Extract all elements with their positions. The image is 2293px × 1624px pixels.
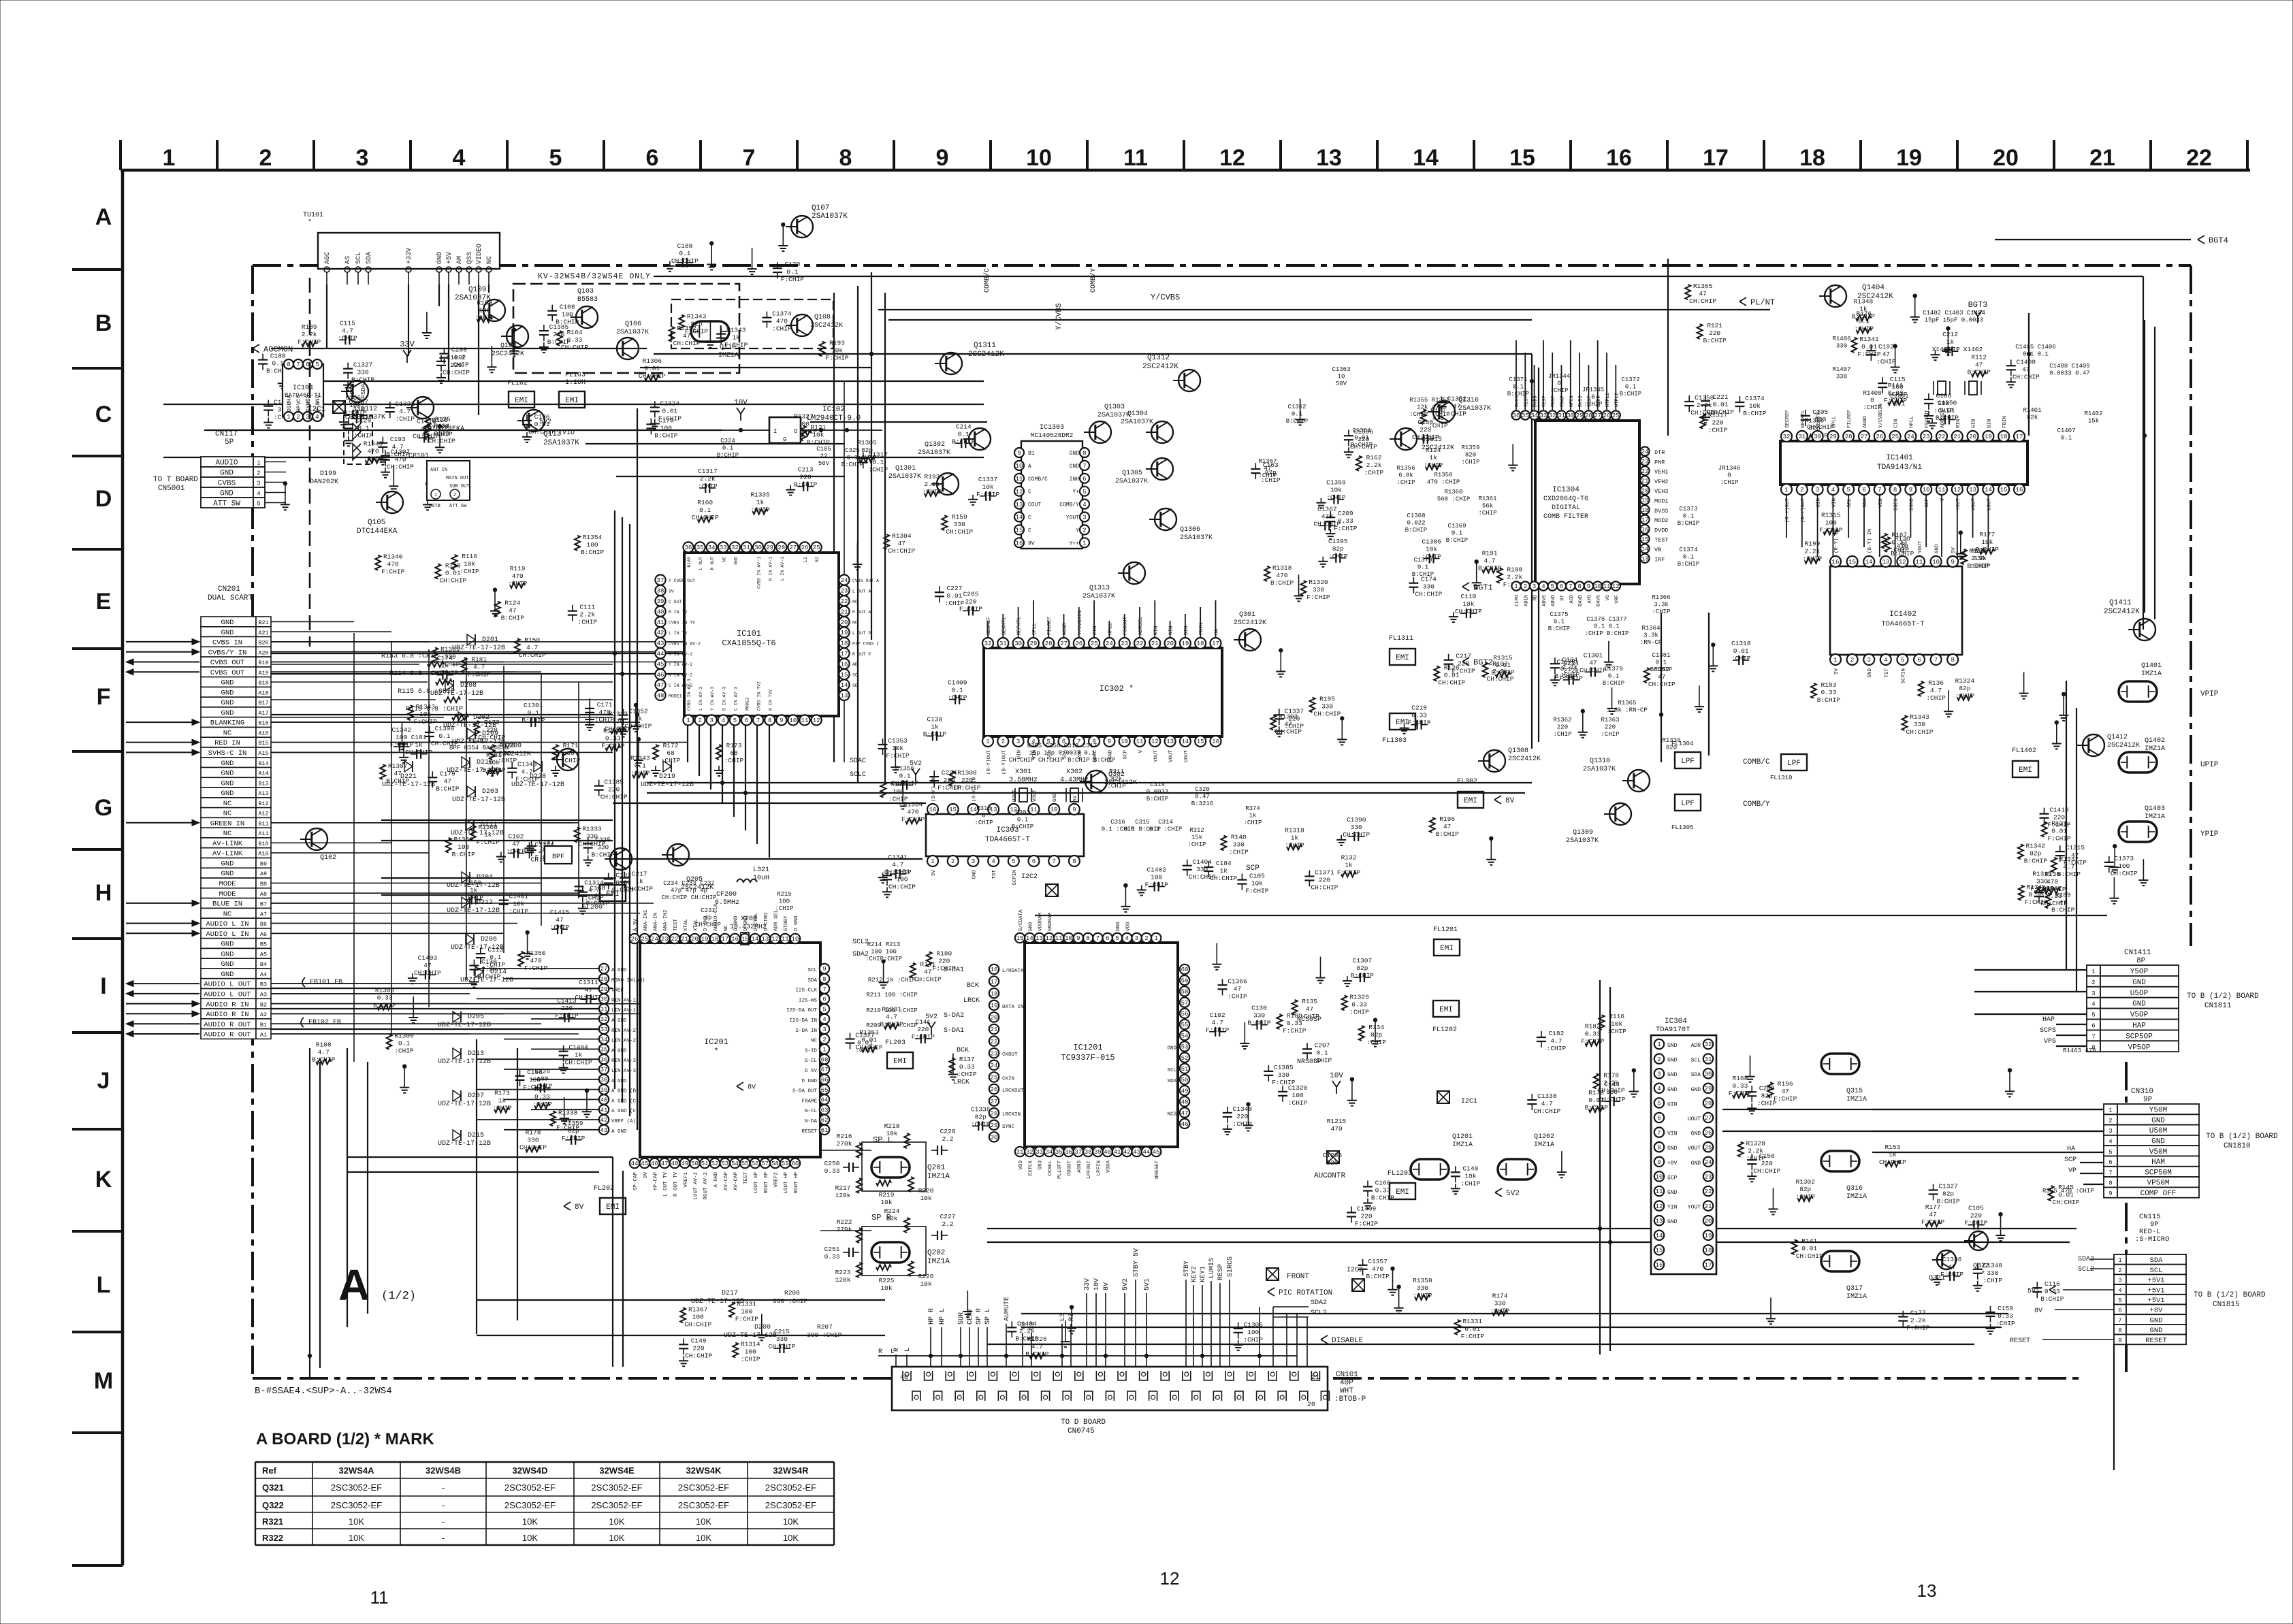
svg-text:13: 13 (1166, 738, 1174, 745)
svg-text:R1359: R1359 (1461, 444, 1479, 451)
svg-text:R114 6.8 :CHIP: R114 6.8 :CHIP (389, 670, 447, 678)
transistor Q120 DTC124EKA (412, 397, 434, 419)
svg-text:8V: 8V (748, 1084, 756, 1092)
svg-text:8: 8 (822, 976, 826, 983)
svg-text:25: 25 (1705, 1144, 1712, 1151)
svg-text:45: 45 (641, 1160, 648, 1167)
svg-text:31: 31 (600, 1006, 608, 1013)
inner dashed border KV box (309, 278, 311, 647)
svg-text:43: 43 (600, 1127, 608, 1134)
filter FL1310 LPF (1781, 754, 1807, 770)
svg-text:82p: 82p (1370, 1031, 1382, 1039)
svg-text:C3: C3 (1029, 1322, 1036, 1330)
svg-text:B:CHIP: B:CHIP (1620, 391, 1641, 397)
svg-text:0.33: 0.33 (1998, 1312, 2013, 1320)
svg-text:42: 42 (600, 1117, 608, 1124)
svg-text:14: 14 (1985, 487, 1992, 493)
svg-text:AS: AS (344, 256, 352, 264)
svg-text:GND: GND (220, 490, 234, 498)
svg-text:CH:CHIP: CH:CHIP (2111, 870, 2138, 877)
svg-text:B:CHIP: B:CHIP (1703, 337, 1727, 344)
svg-text:470: 470 (612, 718, 624, 726)
net PL/NT (1739, 297, 1746, 306)
svg-text:3: 3 (822, 1026, 826, 1033)
svg-text:24: 24 (991, 1062, 998, 1069)
svg-text::BTOB-P: :BTOB-P (1334, 1395, 1366, 1403)
regulator IC102 LM2940CT-9.0 (769, 417, 801, 443)
transistor Q1301 2SA1037K (937, 473, 959, 495)
svg-text:R321: R321 (262, 1516, 283, 1527)
svg-text:CKSEL: CKSEL (1048, 1160, 1053, 1176)
svg-text:0.01: 0.01 (1713, 401, 1729, 408)
svg-text:AV-CAP: AV-CAP (724, 1172, 729, 1191)
svg-text:B:3216: B:3216 (1191, 800, 1213, 807)
svg-text:3: 3 (1816, 487, 1819, 493)
svg-text:8V: 8V (643, 1172, 649, 1179)
svg-text:24: 24 (841, 577, 848, 584)
svg-text:16: 16 (1016, 540, 1023, 547)
svg-text:100: 100 (458, 843, 469, 851)
svg-text:FL202: FL202 (594, 1185, 614, 1192)
svg-text:CH:CHIP: CH:CHIP (1690, 409, 1718, 417)
svg-text:4.7: 4.7 (1550, 1037, 1562, 1045)
svg-text:VP5OP: VP5OP (2128, 1043, 2150, 1052)
svg-text:ADRSEL: ADRSEL (1138, 616, 1144, 635)
svg-text:47: 47 (657, 682, 664, 689)
svg-text:L: L (904, 1348, 912, 1352)
svg-text:Q1309: Q1309 (1573, 829, 1593, 837)
svg-text:F:CHIP: F:CHIP (1283, 1027, 1306, 1035)
svg-text:R1354: R1354 (583, 534, 603, 541)
svg-text:IMZ1A: IMZ1A (927, 1258, 950, 1266)
svg-text:100: 100 (1247, 1329, 1259, 1336)
svg-text:2: 2 (1657, 1056, 1661, 1063)
svg-text:28: 28 (1045, 640, 1053, 647)
svg-text:F:CHIP: F:CHIP (477, 839, 500, 846)
svg-text:Q1315: Q1315 (1422, 436, 1442, 444)
svg-text:B3: B3 (260, 981, 267, 988)
svg-text:15k: 15k (2088, 418, 2099, 425)
net AUCONTR (1327, 1151, 1339, 1163)
transistor Q1202 IMZ1A (1498, 1159, 1536, 1180)
svg-text:LPF: LPF (1681, 758, 1695, 766)
svg-text:SP R: SP R (871, 1213, 891, 1222)
svg-text:TEST: TEST (1542, 395, 1548, 407)
svg-text:0.0033: 0.0033 (1146, 789, 1168, 796)
svg-text:1: 1 (287, 414, 290, 421)
svg-text:R312: R312 (1189, 827, 1204, 834)
svg-text:SCL: SCL (355, 252, 363, 264)
svg-text:25: 25 (813, 545, 820, 551)
svg-text:B5: B5 (260, 941, 267, 948)
transistor Q1411 2SC2412K (2134, 619, 2155, 640)
svg-text:BIN: BIN (1987, 419, 1992, 428)
svg-text:CP101: CP101 (408, 453, 429, 460)
svg-text::CHIP: :CHIP (1478, 510, 1496, 517)
svg-text:BLUE IN: BLUE IN (212, 900, 242, 909)
svg-text:A GND (C): A GND (C) (611, 1109, 639, 1114)
svg-text:RESP: RESP (1217, 1264, 1225, 1280)
svg-text:11: 11 (1916, 559, 1923, 566)
svg-text:CVBS OUT A: CVBS OUT A (852, 579, 879, 583)
svg-text:C102: C102 (1210, 1011, 1225, 1019)
svg-text:10: 10 (1051, 807, 1058, 813)
svg-text:R322: R322 (262, 1533, 283, 1543)
svg-text::CHIP: :CHIP (1652, 608, 1670, 615)
svg-text:7: 7 (1934, 657, 1938, 664)
svg-text:100: 100 (1151, 874, 1162, 881)
svg-text:Q1312: Q1312 (1147, 354, 1170, 362)
svg-text:IMZ1A: IMZ1A (2145, 745, 2165, 753)
svg-text:0: 0 (1591, 394, 1594, 401)
svg-text:47p 47p 4p: 47p 47p 4p (671, 888, 707, 894)
svg-text:X200: X200 (741, 915, 757, 923)
svg-text:100: 100 (741, 1308, 752, 1315)
svg-text:13: 13 (841, 693, 848, 700)
svg-text:CN1810: CN1810 (2224, 1142, 2251, 1150)
svg-text:D GND: D GND (801, 1079, 817, 1084)
svg-text:19: 19 (701, 936, 709, 943)
svg-text:49: 49 (1181, 1088, 1189, 1094)
svg-text:SCP5OP: SCP5OP (2126, 1033, 2153, 1041)
svg-text:8: 8 (2108, 1180, 2112, 1187)
svg-text:HP R: HP R (928, 1308, 935, 1325)
svg-text:GND: GND (1070, 464, 1080, 470)
svg-text:82p: 82p (975, 1113, 987, 1120)
svg-text:R141: R141 (920, 961, 935, 969)
svg-text:R137: R137 (959, 1056, 975, 1063)
net 5V2 mid (1495, 1188, 1502, 1197)
svg-text:R182: R182 (1585, 1023, 1601, 1030)
svg-text:SCP: SCP (1246, 864, 1260, 873)
svg-text:1: 1 (931, 858, 934, 865)
svg-text:UDZ-TE-17-12B: UDZ-TE-17-12B (447, 767, 500, 775)
svg-text:GND: GND (221, 960, 234, 969)
svg-text:HP: HP (296, 405, 302, 412)
svg-text:220: 220 (917, 1026, 929, 1033)
svg-text:C174: C174 (437, 655, 453, 662)
svg-text:B12: B12 (258, 800, 268, 807)
svg-text:IC1304: IC1304 (1552, 486, 1580, 494)
svg-text:14: 14 (1016, 515, 1023, 521)
svg-text:R1306: R1306 (643, 357, 662, 365)
net I2C1 top (333, 401, 345, 413)
svg-text:9: 9 (2118, 1337, 2121, 1344)
svg-text:2SA1037K: 2SA1037K (543, 439, 579, 447)
svg-text::CHIP: :CHIP (1731, 655, 1751, 662)
svg-text:FL1201: FL1201 (1433, 926, 1458, 934)
svg-text:8: 8 (1083, 450, 1086, 457)
svg-text:4.7: 4.7 (1212, 1019, 1223, 1026)
svg-text:HAM: HAM (2151, 1158, 2165, 1167)
svg-text:I2C1: I2C1 (1461, 1098, 1477, 1105)
svg-text:2SA1037K: 2SA1037K (888, 473, 921, 481)
svg-text:GND: GND (221, 699, 234, 707)
svg-text:Q107: Q107 (812, 204, 829, 212)
svg-text:D212: D212 (477, 899, 493, 907)
svg-text:LPF: LPF (1787, 760, 1801, 768)
svg-text:2: 2 (296, 414, 300, 421)
svg-text:4: 4 (1083, 502, 1086, 508)
svg-text:AGC: AGC (324, 252, 332, 264)
svg-text:(B-Y) IN: (B-Y) IN (1867, 529, 1873, 553)
svg-text:0.1: 0.1 (1656, 660, 1667, 666)
svg-text:A10: A10 (258, 851, 268, 858)
svg-text:GND: GND (221, 950, 234, 958)
svg-text:470: 470 (1372, 1265, 1383, 1273)
svg-text:CH:CHIP: CH:CHIP (1343, 831, 1370, 839)
svg-text:GND: GND (2132, 1001, 2146, 1009)
svg-text::CHIP: :CHIP (948, 694, 967, 702)
svg-text:12: 12 (1016, 489, 1023, 496)
svg-text:LIN AV-1: LIN AV-1 (611, 1008, 637, 1013)
svg-text:R116: R116 (462, 553, 477, 560)
svg-text:34: 34 (1045, 1149, 1053, 1156)
svg-text:2.2k: 2.2k (700, 475, 716, 483)
svg-text:100: 100 (779, 898, 790, 905)
svg-text:CVBS: CVBS (218, 480, 236, 488)
svg-text:S-DA1: S-DA1 (944, 1027, 964, 1035)
svg-text:VRF: VRF (1614, 595, 1620, 604)
op-amp IC1303 MC140528DR2 (1021, 441, 1083, 549)
svg-text:330: 330 (1233, 841, 1245, 849)
svg-text:14: 14 (1656, 1233, 1663, 1239)
svg-text:SDA: SDA (1691, 1072, 1701, 1078)
svg-text:CH:CHIP CH:CHIP B:CHIP B:CHIP: CH:CHIP CH:CHIP B:CHIP B:CHIP (1009, 757, 1116, 764)
svg-text:S-ID: S-ID (805, 1048, 818, 1054)
svg-text::CHIP: :CHIP (550, 924, 570, 931)
svg-text:HPLL: HPLL (1909, 415, 1914, 428)
svg-text:VOUT: VOUT (1169, 750, 1174, 763)
svg-text:GND: GND (2132, 979, 2146, 987)
svg-text:220: 220 (1605, 724, 1616, 731)
svg-text:B:CHIP: B:CHIP (501, 615, 525, 622)
svg-text:0.33: 0.33 (2047, 892, 2062, 900)
svg-text:47: 47 (2022, 366, 2030, 373)
svg-text:16: 16 (2016, 487, 2023, 493)
svg-text:15: 15 (841, 672, 848, 679)
ruler left line (121, 170, 125, 1565)
svg-text:220: 220 (561, 1005, 573, 1012)
board outline dash right (2190, 265, 2192, 946)
svg-text:C1357: C1357 (1368, 1258, 1388, 1265)
svg-text:C1385: C1385 (604, 779, 624, 786)
svg-text:59: 59 (782, 1160, 789, 1167)
svg-text:2SC2412K: 2SC2412K (1422, 444, 1454, 452)
svg-text:SCL: SCL (1847, 498, 1853, 508)
svg-text:330: 330 (597, 844, 609, 851)
svg-text:HAP: HAP (2132, 1022, 2146, 1030)
svg-text:CKIN: CKIN (1002, 1076, 1014, 1082)
svg-text:Y++: Y++ (1070, 540, 1080, 547)
svg-text:C: C (1028, 515, 1031, 521)
svg-text:GND: GND (1038, 1160, 1044, 1170)
svg-text:I: I (100, 973, 106, 999)
svg-text:FL1203: FL1203 (1388, 1170, 1412, 1178)
svg-text:6: 6 (1917, 657, 1921, 664)
svg-text:26: 26 (1876, 434, 1883, 440)
svg-text:B:CHIP: B:CHIP (1146, 796, 1168, 802)
svg-text:D214: D214 (490, 969, 507, 976)
svg-text:2SC2412K: 2SC2412K (968, 351, 1004, 359)
svg-text:82p: 82p (1799, 1186, 1811, 1193)
svg-text:10k: 10k (880, 1284, 892, 1292)
filter FL302 EMI (1458, 792, 1484, 808)
svg-text:I2C2: I2C2 (1021, 873, 1038, 881)
svg-text:EMI: EMI (1439, 1006, 1453, 1014)
svg-text:AUCONTR: AUCONTR (1314, 1172, 1346, 1180)
svg-text:R OUT: R OUT (710, 557, 715, 570)
svg-text:CXD2064Q-T6: CXD2064Q-T6 (1543, 496, 1588, 503)
svg-text:30: 30 (1814, 434, 1821, 440)
svg-text:15p 15p 0.0033 0.1: 15p 15p 0.0033 0.1 (1029, 750, 1095, 757)
svg-text:C1315: C1315 (2066, 844, 2085, 851)
svg-text:34: 34 (1530, 412, 1538, 419)
svg-text:30: 30 (1014, 640, 1022, 647)
svg-text:9: 9 (822, 966, 826, 973)
svg-text:C205: C205 (963, 590, 979, 598)
svg-text:AYD: AYD (1587, 595, 1592, 604)
svg-text:47: 47 (1781, 1088, 1789, 1095)
svg-text:5V: 5V (1951, 547, 1957, 553)
svg-text:0.1: 0.1 (1608, 673, 1619, 680)
svg-text::CHIP: :CHIP (1461, 1180, 1481, 1187)
svg-text:18: 18 (711, 936, 719, 943)
svg-text:VREF2: VREF2 (774, 1172, 780, 1188)
svg-text:100: 100 (745, 1348, 756, 1356)
svg-text:7: 7 (1657, 1130, 1661, 1137)
svg-text:B:CHIP: B:CHIP (2024, 857, 2048, 864)
svg-text:20: 20 (691, 936, 699, 943)
svg-text:17: 17 (991, 979, 998, 986)
svg-text:7: 7 (822, 986, 826, 993)
svg-text:18.432MHz: 18.432MHz (730, 924, 767, 931)
svg-text:C115: C115 (1890, 376, 1906, 383)
svg-text:10k: 10k (1251, 880, 1263, 888)
svg-text:R1338: R1338 (558, 1109, 578, 1116)
wire Q201 loop (862, 1142, 926, 1191)
svg-text:12: 12 (813, 717, 820, 724)
svg-text::CHIP: :CHIP (1243, 1336, 1263, 1344)
svg-text:B:CHIP: B:CHIP (1351, 442, 1373, 449)
svg-text:S/CDATA: S/CDATA (1019, 909, 1024, 931)
svg-text:1: 1 (1784, 487, 1788, 493)
svg-text:0.33: 0.33 (824, 1253, 840, 1261)
svg-text:45: 45 (657, 661, 664, 668)
svg-text:FL1303: FL1303 (1382, 737, 1407, 745)
svg-text:QSS: QSS (466, 252, 474, 264)
svg-text:U50M: U50M (2149, 1127, 2167, 1135)
svg-text:GND: GND (220, 470, 234, 478)
svg-text:0.1: 0.1 (2061, 435, 2072, 442)
svg-text:C1307: C1307 (391, 449, 411, 456)
svg-text:CENT: CENT (967, 1308, 974, 1325)
svg-text:B18: B18 (258, 680, 268, 687)
svg-text:F:CHIP: F:CHIP (959, 605, 983, 613)
svg-text:R215: R215 (777, 891, 792, 898)
svg-text:DGND: DGND (1909, 498, 1914, 511)
svg-text:D205: D205 (468, 1013, 484, 1021)
svg-text:44: 44 (657, 651, 664, 657)
svg-text:270k: 270k (837, 1226, 852, 1233)
svg-text:R IN TV2: R IN TV2 (769, 689, 773, 711)
svg-text:C319: C319 (1150, 781, 1165, 788)
svg-text:DTC124EKA: DTC124EKA (428, 425, 464, 433)
svg-text:21: 21 (841, 608, 848, 615)
svg-text:63: 63 (821, 1107, 829, 1114)
svg-text:11: 11 (370, 1587, 389, 1608)
connector CN101 (892, 1367, 1328, 1410)
svg-text::CHIP: :CHIP (1187, 841, 1206, 848)
svg-text:S-DA OUT: S-DA OUT (792, 1089, 818, 1094)
svg-text:C1373: C1373 (2115, 855, 2134, 862)
svg-text:GND: GND (2150, 1316, 2163, 1325)
svg-text:A21: A21 (258, 630, 268, 636)
svg-text:Q108: Q108 (814, 314, 831, 321)
svg-text:R1343: R1343 (364, 440, 383, 448)
svg-text:51: 51 (701, 1160, 709, 1167)
svg-text:47: 47 (512, 841, 519, 848)
svg-text:31: 31 (1558, 412, 1565, 419)
svg-text:R131: R131 (2051, 820, 2067, 828)
svg-text:10k: 10k (982, 483, 994, 491)
svg-text:47: 47 (556, 916, 563, 924)
svg-text:TVID: TVID (558, 429, 575, 437)
svg-text:C325: C325 (845, 447, 860, 454)
svg-text:4.7: 4.7 (342, 327, 353, 334)
svg-text:220: 220 (450, 361, 462, 369)
svg-text:CN101: CN101 (1336, 1371, 1358, 1379)
CN101 bus line (878, 1355, 1297, 1357)
svg-text:Q1310: Q1310 (1590, 758, 1610, 765)
svg-text:A4: A4 (260, 971, 267, 978)
net 5V2 left (915, 775, 916, 781)
svg-text:IC1303: IC1303 (1040, 424, 1064, 432)
svg-text:58: 58 (771, 1160, 779, 1167)
svg-text:COMB/Y: COMB/Y (1743, 800, 1770, 809)
svg-text:C130: C130 (481, 958, 497, 966)
svg-text:RIN AV-2: RIN AV-2 (611, 1028, 636, 1034)
svg-text:A7: A7 (260, 911, 267, 917)
svg-text:FL1311: FL1311 (1389, 635, 1413, 643)
svg-text:220: 220 (1970, 1212, 1982, 1220)
svg-text:RESET: RESET (2010, 1337, 2030, 1345)
svg-text:D206: D206 (481, 936, 497, 943)
svg-text:UDZ-TE-17-12B: UDZ-TE-17-12B (447, 882, 500, 890)
svg-text:Q103: Q103 (577, 288, 594, 295)
svg-text:0.1: 0.1 (958, 430, 969, 438)
svg-text:16: 16 (991, 967, 998, 973)
svg-text:NC: NC (811, 1039, 818, 1044)
svg-text:J: J (97, 1068, 110, 1094)
svg-text:+5V1: +5V1 (2147, 1297, 2164, 1305)
svg-text:47: 47 (1264, 466, 1272, 472)
svg-text:4: 4 (822, 1016, 826, 1023)
svg-text:C186: C186 (527, 1069, 543, 1076)
svg-text::CHIP: :CHIP (1349, 1008, 1369, 1016)
wire SCART long horizontals (271, 641, 752, 643)
svg-text:NC: NC (223, 810, 232, 818)
svg-text:10K: 10K (609, 1516, 624, 1527)
svg-text:Q1301: Q1301 (895, 465, 916, 472)
svg-text:DAVD: DAVD (1578, 595, 1584, 606)
svg-text:40: 40 (657, 608, 664, 615)
svg-text:0.1: 0.1 (1513, 384, 1524, 391)
svg-text:A: A (338, 1261, 370, 1310)
svg-text:GND: GND (221, 779, 234, 787)
svg-text:2: 2 (1144, 935, 1148, 942)
svg-text:2: 2 (822, 1037, 826, 1043)
